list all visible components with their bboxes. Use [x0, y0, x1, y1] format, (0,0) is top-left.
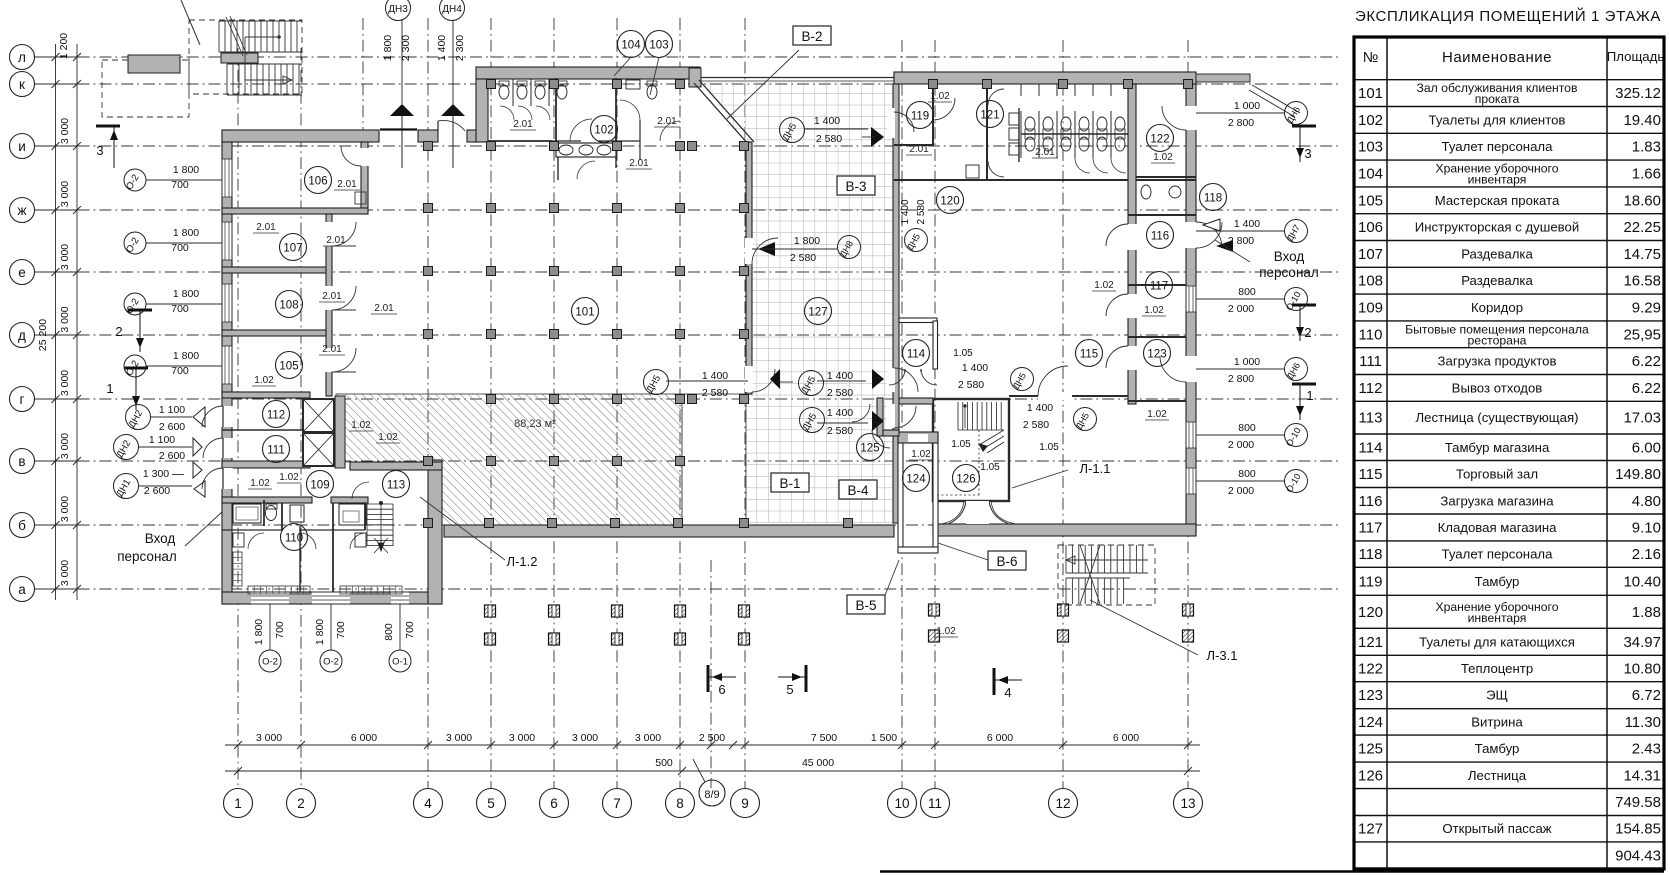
section marks — [96, 126, 1316, 700]
svg-text:14.31: 14.31 — [1623, 767, 1661, 784]
room 106 right wall — [361, 142, 368, 214]
pier between DN3 DN4 — [418, 130, 438, 142]
svg-text:122: 122 — [1150, 134, 1169, 146]
svg-text:1 800: 1 800 — [253, 619, 265, 645]
svg-text:1.83: 1.83 — [1632, 139, 1661, 156]
svg-text:3 000: 3 000 — [509, 732, 535, 744]
121 doors — [988, 89, 1004, 105]
svg-text:Загрузка магазина: Загрузка магазина — [1440, 493, 1554, 508]
bottom window label О-2 at x331 — [320, 650, 342, 672]
svg-text:101: 101 — [575, 307, 594, 319]
svg-text:2.16: 2.16 — [1632, 546, 1661, 563]
ramp edge top-right — [1252, 85, 1300, 113]
svg-text:1.02: 1.02 — [930, 91, 950, 102]
svg-text:Вход: Вход — [145, 531, 176, 546]
vitrine funnel arcs — [948, 501, 966, 524]
svg-text:109: 109 — [1358, 300, 1383, 317]
svg-text:Площадь: Площадь — [1607, 49, 1665, 64]
svg-text:108: 108 — [279, 300, 298, 312]
svg-text:22.25: 22.25 — [1623, 219, 1661, 236]
svg-text:1 400: 1 400 — [1234, 218, 1260, 230]
svg-text:ЭЩ: ЭЩ — [1486, 688, 1508, 703]
svg-text:118: 118 — [1204, 193, 1222, 205]
svg-text:118: 118 — [1359, 546, 1383, 563]
svg-text:Торговый зал: Торговый зал — [1456, 467, 1538, 482]
diagonal wall at passage corner — [694, 83, 749, 145]
stall door arcs top toilets — [500, 106, 514, 120]
svg-text:1.02: 1.02 — [1153, 152, 1173, 163]
svg-text:2.01: 2.01 — [629, 158, 649, 169]
washbasin counter 102 — [556, 143, 616, 157]
svg-text:2 580: 2 580 — [958, 379, 984, 391]
svg-text:Кладовая магазина: Кладовая магазина — [1438, 520, 1558, 535]
svg-text:800: 800 — [1238, 422, 1256, 434]
grid lines — [34, 18, 1338, 788]
svg-text:1 000: 1 000 — [1234, 100, 1260, 112]
axis circle 9 — [731, 789, 760, 818]
svg-text:6.72: 6.72 — [1632, 687, 1661, 704]
DN5 labels near 115 — [1011, 368, 1034, 391]
left axis labels — [10, 45, 78, 602]
table row 105 — [1354, 213, 1664, 215]
svg-text:10.80: 10.80 — [1623, 661, 1661, 678]
svg-text:В-2: В-2 — [801, 29, 822, 44]
svg-text:Туалет персонала: Туалет персонала — [1442, 547, 1554, 562]
bottom axis circles — [224, 780, 1203, 818]
tambour 125 walls — [877, 398, 883, 436]
svg-text:904.43: 904.43 — [1615, 847, 1661, 864]
svg-text:инвентаря: инвентаря — [1468, 173, 1527, 187]
svg-text:О-2: О-2 — [323, 657, 339, 668]
grid line axis 12 — [1062, 40, 1064, 788]
hall top wall — [222, 130, 379, 142]
canopy columns below building — [485, 604, 1194, 645]
svg-text:124: 124 — [1358, 714, 1383, 731]
door DN6 right wall low — [1160, 356, 1186, 382]
svg-text:10.40: 10.40 — [1623, 573, 1661, 590]
svg-text:749.58: 749.58 — [1615, 794, 1661, 811]
top wall extension over ramp — [1196, 74, 1250, 82]
svg-text:3: 3 — [1304, 146, 1311, 161]
svg-text:1.05: 1.05 — [951, 439, 971, 450]
svg-text:88,23 м²: 88,23 м² — [514, 418, 556, 430]
entrance doors left wall — [202, 406, 233, 489]
svg-text:3 000: 3 000 — [59, 181, 71, 207]
svg-text:154.85: 154.85 — [1615, 821, 1661, 838]
svg-text:2.01: 2.01 — [1035, 147, 1055, 158]
svg-text:1.05: 1.05 — [953, 348, 973, 359]
axis circle 6 — [540, 789, 569, 818]
svg-text:700: 700 — [171, 179, 189, 191]
svg-text:1 400: 1 400 — [900, 199, 911, 224]
rooms 107/108/105 right wall — [326, 214, 332, 396]
grid line axis 13 — [1187, 40, 1189, 788]
svg-text:1 000: 1 000 — [1234, 356, 1260, 368]
room 109 circle — [307, 471, 334, 498]
svg-text:ДН4: ДН4 — [442, 4, 462, 15]
wall 112/111 — [222, 429, 303, 431]
stall door arcs 121 lower — [1075, 158, 1090, 173]
room 115 circle — [1076, 340, 1103, 367]
svg-text:325.12: 325.12 — [1615, 85, 1661, 102]
svg-text:103: 103 — [1358, 139, 1383, 156]
svg-text:112: 112 — [267, 410, 285, 422]
svg-text:8: 8 — [676, 796, 684, 811]
wall under room 106 — [222, 208, 368, 214]
table row 101 — [1354, 106, 1664, 108]
svg-text:4: 4 — [424, 796, 432, 811]
svg-text:Загрузка продуктов: Загрузка продуктов — [1438, 354, 1557, 369]
door leaves DN3 DN4 — [380, 128, 417, 130]
cleaning room 104 box — [626, 80, 640, 89]
121 left service wall — [1018, 108, 1020, 162]
wall 108/105 — [222, 330, 332, 336]
grid line axis 8 — [679, 18, 681, 788]
svg-text:125: 125 — [1358, 741, 1383, 758]
svg-text:113: 113 — [1359, 410, 1383, 427]
svg-text:6: 6 — [718, 682, 725, 697]
svg-text:3 000: 3 000 — [635, 732, 661, 744]
window label О-2 at y302 — [124, 293, 146, 315]
hall bottom wall — [444, 525, 894, 537]
grid line axis 11 — [934, 40, 936, 788]
svg-text:104: 104 — [621, 40, 641, 52]
svg-text:3 000: 3 000 — [59, 118, 71, 144]
svg-text:1 800: 1 800 — [382, 35, 394, 61]
window label О-2 at y364 — [124, 355, 146, 377]
room 101 circle — [572, 298, 599, 325]
svg-text:Мастерская проката: Мастерская проката — [1435, 193, 1560, 208]
svg-text:6.00: 6.00 — [1632, 439, 1661, 456]
svg-text:Теплоцентр: Теплоцентр — [1461, 661, 1533, 676]
svg-text:1.02: 1.02 — [1094, 280, 1114, 291]
svg-text:5: 5 — [786, 682, 793, 697]
svg-text:114: 114 — [1359, 439, 1383, 456]
L-1.2 label — [420, 497, 505, 560]
svg-text:2 580: 2 580 — [827, 387, 853, 399]
svg-text:Л-3.1: Л-3.1 — [1207, 648, 1238, 663]
axis circle 2 — [287, 789, 316, 818]
svg-text:107: 107 — [1358, 246, 1383, 263]
svg-text:126: 126 — [956, 474, 975, 486]
right wall label ДН6 at y113 — [1285, 102, 1308, 125]
svg-text:101: 101 — [1358, 85, 1383, 102]
svg-text:125: 125 — [860, 443, 879, 455]
right block top wall — [894, 72, 1196, 84]
svg-text:121: 121 — [980, 110, 999, 122]
svg-text:11.30: 11.30 — [1625, 714, 1661, 731]
room 114 circle — [903, 340, 930, 367]
svg-text:1 400: 1 400 — [827, 370, 853, 382]
DN3 DN4 top labels — [386, 0, 411, 21]
room 124 circle — [903, 465, 930, 492]
open passage 127 tiled floor — [701, 82, 893, 523]
svg-text:1 800: 1 800 — [314, 619, 326, 645]
grid line axis в — [34, 460, 1338, 462]
room 117 circle — [1146, 272, 1173, 299]
axis circle 10 — [888, 789, 917, 818]
bottom dimension lines — [225, 732, 1200, 782]
svg-text:2.43: 2.43 — [1632, 741, 1661, 758]
right wall label О-10 at y435 — [1285, 424, 1308, 447]
room 126 circle — [953, 465, 980, 492]
room 108 circle — [276, 291, 303, 318]
svg-text:2 580: 2 580 — [827, 425, 853, 437]
bottom window label О-2 at x270 — [259, 650, 281, 672]
svg-text:О-2: О-2 — [262, 657, 278, 668]
room 123 circle — [1144, 340, 1171, 367]
arrows passage doors — [770, 369, 780, 389]
grid line axis 7 — [616, 18, 618, 788]
right exterior wall — [1186, 84, 1196, 534]
radiator strips — [248, 586, 310, 594]
svg-text:2 800: 2 800 — [1228, 235, 1254, 247]
svg-text:2: 2 — [297, 796, 305, 811]
svg-text:5: 5 — [487, 796, 495, 811]
svg-text:В-3: В-3 — [845, 179, 866, 194]
ventilation box В-6 — [938, 543, 988, 560]
svg-text:2 800: 2 800 — [1228, 117, 1254, 129]
axis circle в — [10, 449, 35, 474]
svg-text:В-5: В-5 — [855, 598, 876, 613]
svg-text:111: 111 — [1359, 353, 1382, 370]
axis circle 7 — [603, 789, 632, 818]
passage top edge — [694, 77, 894, 79]
svg-text:19.40: 19.40 — [1623, 112, 1661, 129]
axis circle 1 — [224, 789, 253, 818]
wall under toilets 121 — [894, 179, 1196, 181]
svg-text:Л-1.1: Л-1.1 — [1080, 461, 1111, 476]
svg-text:109: 109 — [310, 480, 329, 492]
svg-text:2 000: 2 000 — [1228, 485, 1254, 497]
svg-text:700: 700 — [335, 621, 347, 639]
axis circle 13 — [1174, 789, 1203, 818]
svg-text:3 000: 3 000 — [256, 732, 282, 744]
svg-text:149.80: 149.80 — [1615, 466, 1661, 483]
grid line axis 2 — [300, 48, 302, 788]
svg-text:ЭКСПЛИКАЦИЯ ПОМЕЩЕНИЙ 1 ЭТАЖА: ЭКСПЛИКАЦИЯ ПОМЕЩЕНИЙ 1 ЭТАЖА — [1355, 7, 1661, 25]
toilet 110 — [266, 506, 277, 521]
svg-text:1 400: 1 400 — [814, 115, 840, 127]
svg-text:113: 113 — [387, 480, 405, 492]
room 121 circle — [977, 101, 1004, 128]
ventilation box В-4 — [839, 480, 877, 499]
svg-text:3 000: 3 000 — [59, 306, 71, 332]
grid line axis 5 — [490, 18, 492, 788]
svg-text:115: 115 — [1359, 466, 1383, 483]
svg-text:2 800: 2 800 — [1228, 373, 1254, 385]
axis circle и — [10, 134, 35, 159]
baseline under plan — [880, 870, 1664, 873]
svg-text:1.02: 1.02 — [254, 375, 274, 386]
table row 112 — [1354, 400, 1664, 402]
passage left wall — [746, 142, 752, 394]
svg-text:112: 112 — [1359, 380, 1383, 397]
wall 121/122 — [1128, 84, 1136, 404]
svg-text:2 300: 2 300 — [454, 35, 466, 61]
svg-text:3 000: 3 000 — [59, 560, 71, 586]
svg-text:12: 12 — [1055, 796, 1070, 811]
104 103 leader circles — [614, 57, 631, 76]
grid line axis е — [34, 271, 1338, 273]
svg-text:2: 2 — [115, 324, 122, 339]
svg-text:Тамбур магазина: Тамбур магазина — [1445, 440, 1550, 455]
right wall label ДН6 at y369 — [1285, 358, 1308, 381]
svg-text:119: 119 — [911, 111, 929, 123]
svg-text:127: 127 — [1358, 821, 1383, 838]
grid line axis 10 — [901, 40, 903, 788]
svg-text:4.80: 4.80 — [1632, 493, 1661, 510]
svg-text:2 000: 2 000 — [1228, 303, 1254, 315]
grid line axis а — [34, 588, 1338, 590]
svg-text:800: 800 — [1238, 286, 1256, 298]
svg-text:О-1: О-1 — [392, 657, 408, 668]
svg-text:Инструкторская с душевой: Инструкторская с душевой — [1415, 220, 1579, 235]
svg-text:2.01: 2.01 — [322, 291, 342, 302]
svg-text:9.10: 9.10 — [1632, 519, 1661, 536]
svg-text:6.22: 6.22 — [1632, 380, 1661, 397]
entry arrows top doors — [390, 104, 414, 116]
svg-text:116: 116 — [1359, 493, 1383, 510]
table row 123 — [1354, 708, 1664, 710]
svg-text:Туалет персонала: Туалет персонала — [1442, 139, 1554, 154]
svg-text:4: 4 — [1004, 685, 1011, 700]
room 118 circle — [1200, 184, 1227, 211]
svg-text:800: 800 — [383, 623, 395, 641]
svg-text:106: 106 — [1358, 219, 1383, 236]
svg-text:123: 123 — [1358, 687, 1383, 704]
window label О-2 at y178 — [124, 169, 146, 191]
room number circles — [263, 31, 1227, 551]
svg-text:116: 116 — [1151, 231, 1169, 243]
svg-text:Туалеты для катающихся: Туалеты для катающихся — [1419, 634, 1575, 649]
svg-text:2: 2 — [1304, 325, 1311, 340]
svg-text:2.01: 2.01 — [256, 222, 276, 233]
svg-text:л: л — [18, 50, 26, 65]
svg-text:1.02: 1.02 — [279, 472, 299, 483]
table row 103 — [1354, 159, 1664, 161]
svg-text:2.01: 2.01 — [909, 144, 929, 155]
svg-text:9: 9 — [741, 796, 749, 811]
svg-text:126: 126 — [1358, 767, 1383, 784]
room 105 circle — [276, 352, 303, 379]
svg-text:Вывоз отходов: Вывоз отходов — [1452, 380, 1543, 395]
svg-text:1 400: 1 400 — [962, 362, 988, 374]
svg-text:Коридор: Коридор — [1471, 300, 1523, 315]
table row 117 — [1354, 540, 1664, 542]
bottom window label О-1 at x400 — [389, 650, 411, 672]
svg-text:1: 1 — [1306, 388, 1313, 403]
svg-text:117: 117 — [1150, 281, 1168, 293]
svg-text:1: 1 — [234, 796, 242, 811]
svg-text:Тамбур: Тамбур — [1475, 741, 1520, 756]
wall 116/117 — [1128, 284, 1186, 286]
svg-text:б: б — [18, 518, 26, 533]
wall 107/108 — [222, 267, 332, 273]
svg-text:Л-1.2: Л-1.2 — [507, 554, 538, 569]
svg-text:Раздевалка: Раздевалка — [1461, 273, 1533, 288]
table row 119 — [1354, 594, 1664, 596]
passage right wall — [893, 84, 899, 523]
svg-text:2.01: 2.01 — [513, 119, 533, 130]
axis circle 11 — [921, 789, 950, 818]
svg-text:1 400: 1 400 — [827, 407, 853, 419]
door DN6 right wall top — [1162, 106, 1186, 130]
room 103 circle — [646, 31, 673, 58]
grid line axis 4 — [427, 18, 429, 788]
axis circle 12 — [1049, 789, 1078, 818]
room 113 circle — [383, 471, 410, 498]
axis circle г — [10, 387, 35, 412]
svg-text:3 000: 3 000 — [572, 732, 598, 744]
svg-text:103: 103 — [649, 40, 668, 52]
svg-text:3: 3 — [96, 143, 103, 158]
top-left exterior stair — [102, 0, 302, 117]
table row header — [1354, 79, 1664, 81]
window label О-2 at y241 — [124, 232, 146, 254]
svg-text:122: 122 — [1358, 661, 1383, 678]
svg-text:105: 105 — [279, 361, 298, 373]
svg-text:1: 1 — [106, 381, 113, 396]
room 116 circle — [1147, 222, 1174, 249]
table row 118 — [1354, 566, 1664, 568]
svg-text:е: е — [18, 265, 26, 280]
svg-text:18.60: 18.60 — [1623, 192, 1661, 209]
grid line axis и — [34, 145, 1338, 147]
svg-text:120: 120 — [940, 196, 959, 208]
svg-text:2.01: 2.01 — [657, 116, 677, 127]
svg-text:6 000: 6 000 — [987, 732, 1013, 744]
svg-text:25 200: 25 200 — [37, 319, 49, 351]
svg-text:2 580: 2 580 — [816, 133, 842, 145]
bottom-left block right wall — [428, 460, 442, 604]
L-1.1 label — [1012, 470, 1068, 488]
bottom-right exterior stair L-3.1 — [1058, 545, 1237, 663]
axis circle д — [10, 323, 35, 348]
wall 117/123 — [1128, 336, 1186, 338]
svg-text:2 600: 2 600 — [159, 450, 185, 462]
svg-text:107: 107 — [283, 243, 302, 255]
toilet block 102-104 top wall — [476, 67, 700, 79]
svg-text:2 300: 2 300 — [400, 35, 412, 61]
svg-text:ДН3: ДН3 — [388, 4, 408, 15]
svg-text:102: 102 — [594, 125, 613, 137]
wall under 111 — [222, 461, 310, 468]
svg-text:25,95: 25,95 — [1623, 326, 1661, 343]
wall 115 south — [1009, 395, 1128, 397]
right wall label О-10 at y299 — [1285, 288, 1308, 311]
vitrine 124 walls — [898, 435, 903, 551]
svg-text:6: 6 — [550, 796, 558, 811]
svg-text:1 500: 1 500 — [871, 732, 897, 744]
svg-text:а: а — [18, 582, 26, 597]
svg-text:В-4: В-4 — [847, 483, 869, 498]
room 112 circle — [263, 401, 290, 428]
axis circle 5 — [477, 789, 506, 818]
grid line axis 89 — [710, 560, 712, 788]
svg-text:1.02: 1.02 — [1147, 409, 1167, 420]
svg-text:114: 114 — [907, 349, 926, 361]
axis circle к — [10, 72, 35, 97]
table row 121 — [1354, 654, 1664, 656]
stair L-1.2 — [367, 501, 393, 553]
grid line axis 6 — [553, 18, 555, 788]
svg-text:персонал: персонал — [117, 549, 177, 564]
svg-text:8/9: 8/9 — [704, 789, 719, 801]
room 127 circle — [805, 298, 832, 325]
grid line axis к — [34, 83, 1338, 85]
room 102 circle — [591, 116, 618, 143]
